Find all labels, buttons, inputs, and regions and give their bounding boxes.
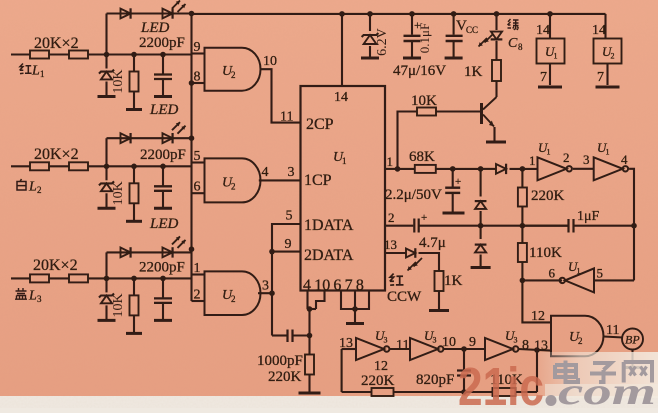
watermark dot [546, 395, 557, 406]
label 110K osc [529, 245, 562, 261]
wire pin2 to clamp [419, 225, 481, 227]
label 0.1uF [417, 23, 432, 53]
pin 2 invA [563, 150, 570, 165]
inverter U1b [594, 157, 628, 180]
svg-text:9: 9 [194, 40, 201, 55]
wire feedback bottom a [342, 391, 372, 393]
svg-text:2200pF: 2200pF [139, 35, 185, 51]
node rail cap47 [409, 11, 415, 17]
node J1b [131, 52, 137, 58]
svg-text:C: C [508, 36, 518, 51]
label U1 [333, 150, 347, 166]
svg-text:1CP: 1CP [304, 172, 332, 189]
svg-text:13: 13 [384, 237, 397, 252]
svg-text:47μ/16V: 47μ/16V [393, 63, 446, 79]
svg-text:11: 11 [396, 338, 409, 353]
svg-text:2: 2 [578, 336, 583, 346]
svg-text:11: 11 [280, 110, 293, 125]
svg-text:12: 12 [374, 359, 388, 374]
nand gate U2 row 1 [205, 48, 261, 91]
resistor 220K vertical [299, 336, 321, 394]
label 4.7u [419, 235, 446, 251]
wire stub 2DATA [272, 251, 301, 253]
nand gate U2 row 3 [205, 271, 261, 315]
label 1000pF [257, 353, 303, 369]
LED red CCW [406, 248, 422, 270]
svg-text:9: 9 [285, 237, 292, 252]
pin 8 row 1 [194, 70, 201, 85]
wire gate stub b row 3 [192, 300, 205, 302]
svg-text:220K: 220K [268, 369, 302, 385]
capacitor Vcc [445, 14, 463, 58]
wire nand out [604, 337, 624, 338]
node J2b [131, 164, 137, 170]
resistor 68K [415, 165, 436, 173]
svg-text:14: 14 [536, 23, 550, 38]
svg-text:+: + [455, 176, 461, 188]
diode D osc [496, 164, 506, 174]
label 10K row 2 [111, 181, 126, 205]
label U2 box [602, 44, 615, 61]
pin 3 gate3 [262, 279, 269, 294]
LED green C8 [491, 14, 503, 60]
label LED row 1 [140, 20, 170, 36]
nand gate U2 bp [551, 316, 603, 357]
node J3a [104, 276, 110, 282]
pin 5 row 2 [194, 149, 201, 164]
pin 3 U1 [288, 165, 295, 180]
resistor 10K row 3 [126, 278, 142, 333]
label C8 [508, 36, 523, 52]
svg-text:10K: 10K [111, 69, 126, 93]
node gate3 out [269, 290, 275, 296]
wire 1K to ground ccw [429, 291, 449, 311]
label 220K bottom-left [268, 369, 302, 385]
wire feedback bottom b [394, 391, 493, 393]
svg-text:7: 7 [540, 70, 547, 85]
capacitor 1000pF [272, 293, 310, 342]
node right rail 1uF [631, 223, 637, 229]
node stub row1 [189, 80, 195, 86]
svg-text:+: + [421, 212, 427, 224]
wire feedback up [536, 350, 538, 392]
node J2c [160, 164, 166, 170]
label U1 invB [597, 140, 610, 157]
node pin1 [395, 166, 401, 172]
LED arrows row 3 [172, 236, 186, 248]
wire gate stub a row 2 [192, 161, 205, 163]
label 1CP [304, 172, 332, 189]
wire rail to U1 box [549, 14, 551, 39]
label U2 row 1 [222, 64, 236, 80]
svg-text:CC: CC [466, 25, 478, 35]
wire bypass riser row 1 [105, 14, 107, 55]
pins 4 10 6 7 8 U1 [303, 277, 364, 294]
wire gate stub a row 3 [192, 273, 205, 275]
diode clamp upper [475, 169, 487, 226]
diode D3a [121, 247, 131, 257]
label U2 row 3 [222, 288, 236, 304]
node bypass top row1 [189, 11, 195, 17]
wire inv1 to inv2 [389, 348, 410, 350]
wire gate2 output [259, 179, 301, 181]
svg-text:10: 10 [263, 54, 277, 69]
svg-text:6: 6 [194, 180, 201, 195]
label 1K ccw [444, 273, 463, 289]
label 2200pF row 1 [139, 35, 185, 51]
svg-text:3: 3 [262, 279, 269, 294]
svg-text:1DATA: 1DATA [304, 217, 354, 234]
pin 6 invC [549, 266, 556, 281]
label U1 invA [538, 140, 551, 157]
pin 1 row 3 [194, 261, 201, 276]
node bypass row2 [189, 135, 195, 141]
resistor 20K a row 1 [30, 51, 49, 59]
node J2a [104, 164, 110, 170]
wire bypass row 1 [107, 12, 192, 14]
node 220K top [520, 166, 526, 172]
svg-text:1: 1 [577, 267, 581, 276]
node 820pF bottom [461, 389, 467, 395]
wire inv3 to nand [518, 349, 551, 351]
label 10K row 3 [111, 293, 126, 317]
svg-text:com: com [558, 371, 656, 408]
wire clamp to 1uF [481, 225, 568, 227]
svg-text:20K×2: 20K×2 [34, 35, 79, 52]
diode D1a [121, 8, 131, 18]
node clamp top [478, 166, 484, 172]
pin 2 row 3 [194, 288, 201, 303]
wire right to invC [594, 279, 634, 281]
transistor Q1 [482, 97, 507, 142]
label U3b [424, 328, 437, 345]
wire gate3 to data pins [272, 224, 301, 293]
svg-text:1K: 1K [464, 64, 483, 80]
pin 4 gate2 [262, 165, 269, 180]
label 220K osc [531, 188, 565, 204]
node 1000pF junction [307, 333, 313, 339]
capacitor 1uF [569, 219, 574, 233]
svg-text:2: 2 [194, 288, 201, 303]
svg-text:2200pF: 2200pF [139, 260, 185, 276]
svg-text:20K×2: 20K×2 [33, 257, 78, 274]
label 820pF [416, 372, 454, 388]
ic U2 supply box [594, 39, 622, 64]
wire row 1 [49, 53, 69, 55]
pin 5 U1 [286, 209, 293, 224]
label 10K row 1 [111, 69, 126, 93]
plus pin2 cap [421, 212, 427, 224]
LED D2b [163, 133, 173, 143]
pin 7 U2 box [597, 70, 604, 85]
node bypass row3 [189, 246, 195, 252]
wire top rail [192, 13, 606, 15]
wire bypass riser row 3 [105, 252, 107, 278]
resistor 20K a row 2 [30, 162, 49, 170]
node clamp mid [478, 223, 484, 229]
svg-text:1: 1 [547, 148, 551, 157]
LED arrows row 2 [172, 122, 186, 134]
inverter U3c [485, 338, 518, 360]
svg-text:1: 1 [529, 153, 536, 168]
wire 10K to pin1 node [398, 112, 418, 169]
svg-text:7: 7 [597, 70, 604, 85]
label CCW [387, 289, 422, 305]
svg-text:4: 4 [262, 165, 269, 180]
ground U2 box [596, 64, 620, 88]
pin 1 U1 [387, 154, 394, 169]
node J1c [160, 52, 166, 58]
node J3b [131, 276, 137, 282]
capacitor 2200pF row 1 [154, 55, 172, 97]
resistor 1K ccw [435, 271, 444, 291]
nand gate U2 row 2 [205, 158, 261, 202]
pin 5 invC [597, 266, 604, 281]
pin 7 U1 box [540, 70, 547, 85]
label lan L3 (blue) [15, 288, 42, 304]
wire row 3 to junction [88, 277, 192, 279]
svg-text:8: 8 [518, 42, 523, 52]
plus sign 47u [414, 18, 421, 32]
wire base 10K [436, 110, 480, 112]
svg-text:LED: LED [140, 20, 170, 36]
zener Z3 [98, 278, 116, 320]
pin 13 nand [534, 339, 548, 354]
svg-text:1: 1 [387, 154, 394, 169]
label U1 invC [568, 259, 581, 276]
pin 4 invB [621, 152, 628, 167]
wire bypass riser row 2 [105, 138, 107, 166]
watermark 21ic [458, 357, 544, 413]
pin 12 nand [531, 309, 545, 324]
pin 9 inv3 [469, 335, 476, 350]
label 220K fb [361, 373, 395, 389]
wire 1uF to right [574, 225, 635, 227]
pin 10 gate1 [263, 54, 277, 69]
wire bypass row 2 [107, 137, 192, 139]
capacitor 2200pF row 2 [154, 166, 172, 208]
pin 13 inv1 [339, 336, 353, 351]
LED D3b [163, 247, 173, 257]
label U2 bp [569, 330, 583, 346]
svg-text:8: 8 [194, 70, 201, 85]
svg-text:L: L [28, 180, 37, 195]
svg-text:1μF: 1μF [577, 209, 600, 224]
svg-text:0.1μF: 0.1μF [417, 23, 432, 53]
wire feedback left [341, 349, 343, 392]
svg-text:2: 2 [388, 210, 395, 225]
ground BP [624, 349, 642, 368]
watermark dian [555, 361, 578, 383]
LED D1b [163, 8, 173, 18]
svg-text:2DATA: 2DATA [304, 247, 354, 264]
label U3c [505, 328, 518, 345]
diode clamp lower [471, 226, 491, 268]
resistor 10K row 1 [126, 55, 142, 110]
svg-text:1K: 1K [444, 273, 463, 289]
wire gate stub a row 1 [192, 52, 205, 54]
wire inv2 to inv3 [443, 348, 485, 350]
zener Z2 [98, 166, 116, 208]
label 68K [409, 149, 435, 165]
pin 6 row 2 [194, 180, 201, 195]
wire 68K to node [436, 168, 453, 170]
wire to 1000pF node [308, 309, 310, 336]
wire 1uF line [522, 225, 568, 227]
node rail u1box [547, 11, 553, 17]
svg-text:2: 2 [611, 52, 615, 61]
label 2DATA [304, 247, 354, 264]
diode D2a [121, 133, 131, 143]
capacitor 47u/16V [403, 14, 421, 58]
wire vertical input line [190, 14, 192, 302]
label LED row 3 [149, 216, 179, 232]
label 1uF [577, 209, 600, 224]
wire gate1 output [261, 69, 301, 122]
svg-text:8: 8 [522, 338, 529, 353]
svg-text:14: 14 [334, 90, 348, 105]
pin 14 U2 box [592, 23, 606, 38]
label U1 box [545, 44, 558, 61]
svg-text:1: 1 [554, 52, 558, 61]
svg-text:4.7μ: 4.7μ [419, 235, 446, 251]
resistor 10K base [417, 108, 436, 116]
svg-text:220K: 220K [361, 373, 395, 389]
svg-text:BP: BP [625, 333, 640, 347]
node 2data branch [269, 249, 275, 255]
svg-text:2: 2 [231, 181, 236, 191]
watermark zi [590, 363, 616, 382]
node 2.2u [450, 166, 456, 172]
svg-text:LED: LED [149, 102, 179, 118]
pin 9 row 1 [194, 40, 201, 55]
svg-text:14: 14 [592, 23, 606, 38]
inverter U3b [410, 338, 443, 360]
wire pin13 stub [385, 252, 406, 254]
label 20K×2 row 2 [34, 146, 79, 163]
pin 14 U1 box [536, 23, 550, 38]
svg-text:1000pF: 1000pF [257, 353, 303, 369]
capacitor 820pF [457, 349, 471, 392]
label U2 row 2 [222, 175, 236, 191]
svg-text:2CP: 2CP [306, 116, 334, 133]
svg-text:2200pF: 2200pF [140, 147, 186, 163]
svg-text:3: 3 [37, 294, 42, 304]
svg-text:10K: 10K [111, 293, 126, 317]
pin 13 U1 [384, 237, 397, 252]
svg-text:2: 2 [231, 70, 236, 80]
watermark backing [538, 352, 658, 398]
resistor 20K a row 3 [30, 274, 49, 282]
LED arrows row 1 [172, 1, 186, 13]
svg-text:5: 5 [194, 149, 201, 164]
svg-text:21ic: 21ic [458, 357, 544, 408]
svg-text:5: 5 [597, 266, 604, 281]
label 6.2V [375, 28, 390, 56]
svg-text:3: 3 [433, 336, 437, 345]
svg-text:2: 2 [231, 294, 236, 304]
svg-text:68K: 68K [409, 149, 435, 165]
pin 11 U1 [280, 110, 293, 125]
resistor 10K row 2 [126, 166, 142, 221]
wire inv1 input [342, 348, 356, 350]
node 820pF top [461, 346, 467, 352]
inverter U1c [560, 268, 594, 292]
svg-text:1: 1 [342, 156, 347, 166]
resistor 220K fb [372, 388, 394, 396]
pin 11 inv2 [396, 338, 409, 353]
wire pin7 ground [346, 291, 364, 324]
resistor 220K osc [518, 169, 527, 226]
svg-text:3: 3 [288, 165, 295, 180]
buzzer BP [622, 329, 643, 350]
resistor 1K green [492, 60, 501, 81]
wire invC out [522, 279, 562, 281]
resistor 110K osc [518, 226, 527, 281]
wire clamp to diode [481, 168, 496, 170]
wire invA to invB [573, 168, 594, 170]
svg-text:CCW: CCW [387, 289, 422, 305]
svg-text:1: 1 [40, 69, 45, 79]
svg-text:11: 11 [606, 323, 619, 338]
pin 8 inv3 [522, 338, 529, 353]
pin 12 inv1 [374, 359, 388, 374]
svg-text:2: 2 [563, 150, 570, 165]
wire pin2 stub [385, 225, 413, 227]
label 2200pF row 3 [139, 260, 185, 276]
resistor 110K fb [493, 388, 516, 396]
label 47u/16V [393, 63, 446, 79]
node rail pin14 [339, 11, 345, 17]
label hong (red) ccw [390, 274, 404, 286]
wire row 3 [49, 277, 69, 279]
svg-text:6.2V: 6.2V [375, 28, 390, 56]
ic U1 supply box [537, 39, 565, 64]
node rail led [494, 11, 500, 17]
wire input row 1 [11, 53, 30, 55]
node J3c [160, 276, 166, 282]
LED green arrows [479, 34, 494, 47]
watermark wang [624, 362, 652, 383]
zener 6.2V [361, 14, 379, 58]
svg-text:2: 2 [37, 185, 42, 195]
wire gate stub b row 2 [192, 192, 205, 194]
label 2200pF row 2 [140, 147, 186, 163]
resistor 20K b row 2 [69, 162, 88, 170]
svg-text:3: 3 [514, 336, 518, 345]
label 10K base [411, 93, 437, 109]
svg-text:5: 5 [286, 209, 293, 224]
node J1a [104, 52, 110, 58]
svg-text:6: 6 [549, 266, 556, 281]
wire invB output right [629, 169, 634, 281]
svg-text:L: L [31, 64, 40, 79]
wire input row 3 [11, 277, 30, 279]
svg-text:1: 1 [194, 261, 201, 276]
inverter U3a [356, 338, 389, 360]
ic U1 box [301, 86, 386, 291]
pin 11 nand [606, 323, 619, 338]
node rail cap01 [451, 11, 457, 17]
label 2.2u/50V [385, 187, 442, 203]
wire node to clamp node [453, 168, 481, 170]
wire pin6 down [341, 291, 355, 310]
svg-text:10K: 10K [111, 181, 126, 205]
pin 3 invB [583, 152, 590, 167]
label 110K fb [490, 372, 523, 388]
svg-text:10: 10 [442, 335, 456, 350]
pin 9 U1 [285, 237, 292, 252]
